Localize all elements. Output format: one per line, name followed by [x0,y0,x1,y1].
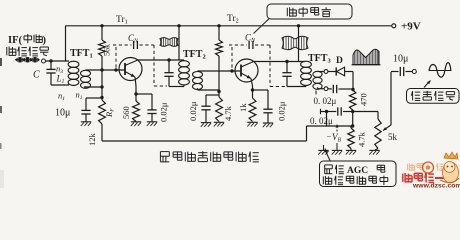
svg-text:560: 560 [121,106,131,119]
svg-text:TFT2: TFT2 [183,49,206,61]
svg-text:D: D [336,56,343,66]
svg-text:−: − [327,132,332,142]
svg-text:56k: 56k [103,44,112,56]
svg-text:0.02μ: 0.02μ [159,102,169,122]
svg-text:AGC: AGC [347,166,368,176]
svg-text:4.7k: 4.7k [223,105,233,121]
svg-text:12k: 12k [87,133,97,147]
svg-text:470: 470 [359,93,369,106]
svg-text:0.02μ: 0.02μ [188,101,198,121]
svg-text:): ) [43,35,47,46]
svg-text:0. 02μ: 0. 02μ [314,96,337,106]
svg-text:10μ: 10μ [55,108,70,119]
svg-text:IF(: IF( [8,35,23,46]
svg-text:10μ: 10μ [393,54,408,65]
svg-text:4.7k: 4.7k [357,131,367,147]
svg-text:0.02μ: 0.02μ [277,101,287,121]
svg-text:TFT1: TFT1 [70,48,93,60]
svg-text:C: C [33,70,40,81]
svg-text:+9V: +9V [401,21,421,33]
svg-text:5k: 5k [388,132,398,142]
svg-text:1k: 1k [238,103,248,112]
svg-text:0. 02μ: 0. 02μ [310,116,333,126]
svg-text:www.dzsc.com: www.dzsc.com [412,183,460,189]
